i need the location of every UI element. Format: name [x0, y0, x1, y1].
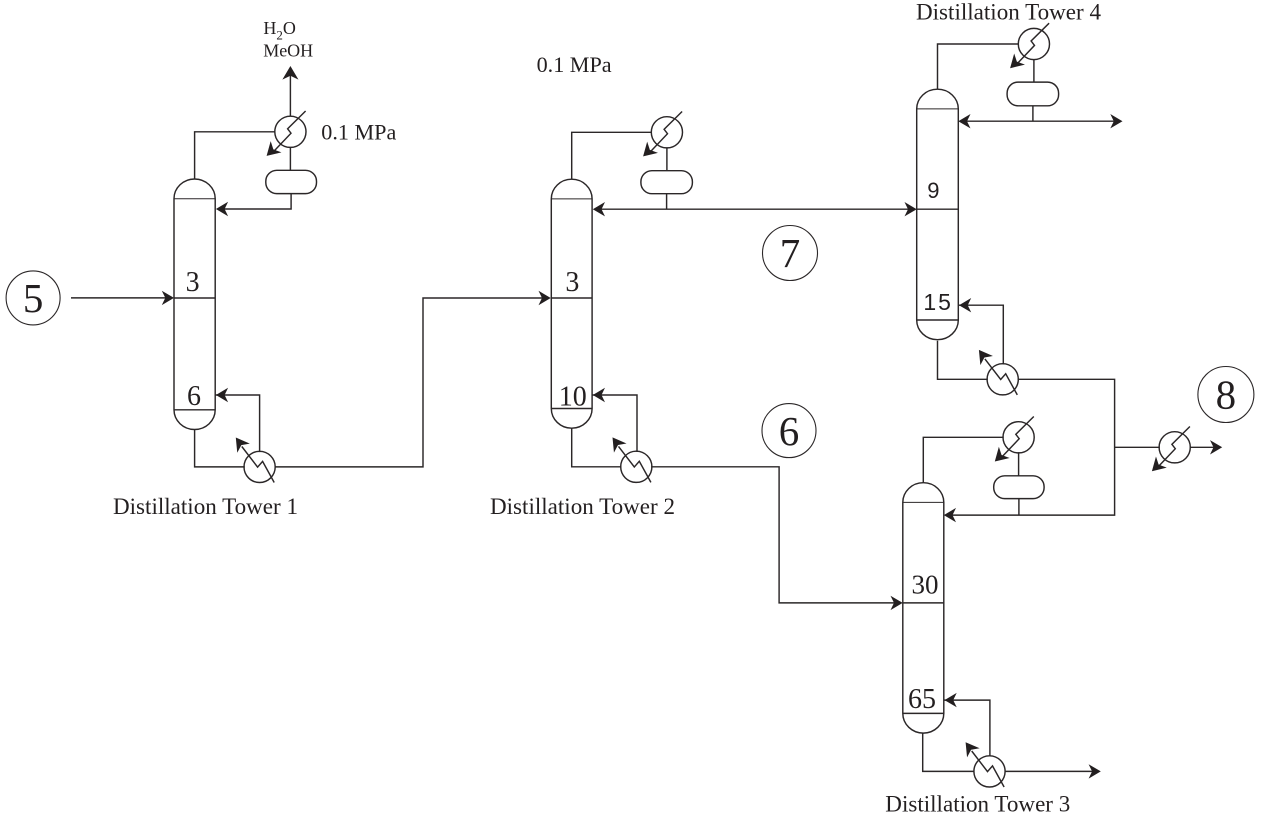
svg-text:9: 9 [927, 178, 939, 203]
svg-text:H2O: H2O [263, 18, 296, 43]
svg-text:3: 3 [565, 267, 579, 298]
svg-text:0.1 MPa: 0.1 MPa [537, 52, 612, 77]
svg-text:5: 5 [23, 275, 44, 321]
svg-text:15: 15 [923, 289, 953, 315]
svg-text:Distillation Tower 2: Distillation Tower 2 [490, 494, 675, 519]
svg-text:30: 30 [912, 569, 939, 599]
svg-text:Distillation Tower 3: Distillation Tower 3 [885, 792, 1070, 817]
svg-text:65: 65 [908, 684, 936, 715]
svg-text:Distillation Tower 4: Distillation Tower 4 [916, 0, 1101, 25]
svg-text:MeOH: MeOH [263, 41, 313, 61]
svg-text:6: 6 [187, 381, 201, 412]
svg-text:3: 3 [186, 267, 200, 298]
svg-text:8: 8 [1216, 372, 1237, 418]
svg-text:6: 6 [779, 408, 800, 454]
svg-text:0.1 MPa: 0.1 MPa [321, 119, 396, 144]
svg-text:10: 10 [559, 382, 587, 413]
svg-text:7: 7 [780, 230, 801, 276]
svg-text:Distillation Tower 1: Distillation Tower 1 [113, 494, 298, 519]
